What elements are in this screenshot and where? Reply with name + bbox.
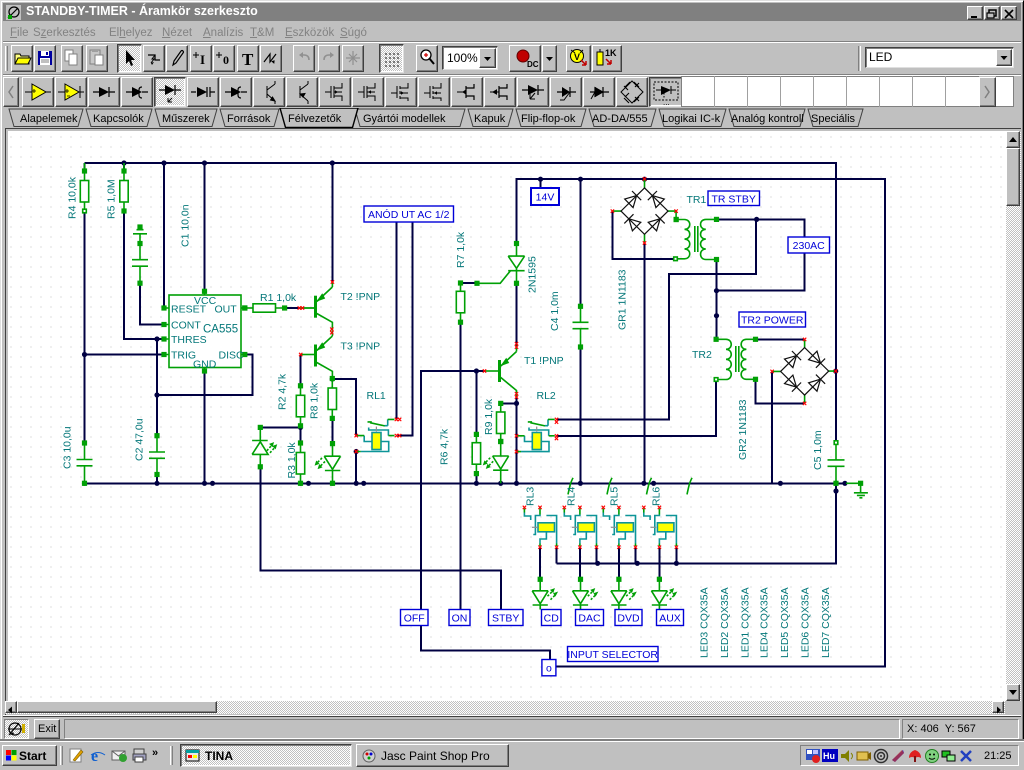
svg-text:Gyártói modellek: Gyártói modellek (363, 113, 446, 125)
wire RL3 coil to bus (556, 548, 558, 563)
resistor R4 (80, 163, 88, 213)
resistor R2 (296, 384, 304, 428)
wire R7 to gate (461, 282, 478, 284)
diode GR1c (629, 219, 641, 231)
svg-text:LED5 CQX35A: LED5 CQX35A (779, 587, 791, 658)
svg-text:0: 0 (223, 53, 229, 67)
svg-text:ANÓD UT AC 1/2: ANÓD UT AC 1/2 (368, 208, 450, 221)
wire TRIG branch (85, 354, 165, 356)
svg-text:DAC: DAC (578, 613, 601, 625)
menu bar (3, 22, 1021, 41)
svg-text:T1 !PNP: T1 !PNP (524, 355, 564, 367)
wire DISC loop (157, 355, 253, 396)
wire D1 to R2/R3 node (260, 426, 300, 428)
wire RL3 coil to LED (539, 548, 541, 579)
wire tool (143, 45, 165, 72)
wire R9 branch (501, 402, 517, 404)
LED LD4 (AUX) (651, 578, 676, 610)
wire T2 emitter riser (331, 163, 333, 282)
node INPUT SELECTOR (567, 647, 658, 662)
wire ground rail (85, 482, 847, 484)
transistor T2 (300, 282, 332, 331)
svg-text:LED7 CQX35A: LED7 CQX35A (820, 587, 832, 658)
node TR STBY (708, 191, 760, 206)
svg-text:...: ... (663, 98, 670, 106)
wire D1 to STBY (260, 467, 501, 610)
pin-connection marks (red x) (298, 177, 838, 549)
svg-text:Műszerek: Műszerek (162, 113, 210, 125)
last (342, 45, 364, 72)
svg-text:STBY: STBY (492, 613, 519, 625)
wire RL6 coil to bus (675, 548, 677, 563)
title bar (3, 3, 1021, 21)
svg-text:Speciális: Speciális (811, 113, 856, 125)
TINA task (active) (180, 744, 352, 767)
node ON (449, 610, 470, 626)
capacitor C4 (573, 305, 589, 349)
tab bar (3, 108, 1021, 130)
diode GR2c (785, 375, 797, 387)
wire R6 to rail (475, 371, 477, 483)
svg-text:Logikai IC-k: Logikai IC-k (662, 113, 721, 125)
relay RL6 (644, 509, 677, 547)
wire RL6 coil to LED (658, 548, 660, 579)
svg-text:R7 1,0k: R7 1,0k (455, 231, 467, 268)
wire C2 column (156, 339, 158, 483)
wire TR1 sec top loop (717, 219, 805, 290)
capacitor C1 (132, 225, 148, 285)
svg-text:TR2 POWER: TR2 POWER (741, 315, 804, 327)
svg-text:230AC: 230AC (793, 240, 826, 252)
SCHEMATIC-PARTS2 (612, 179, 834, 404)
transistor T1 (485, 345, 517, 396)
svg-text:CD: CD (544, 613, 560, 625)
svg-text:Kapcsolók: Kapcsolók (93, 113, 144, 125)
diode GR2a (785, 356, 797, 368)
wire 14V rail stub (540, 179, 542, 188)
svg-text:DC: DC (527, 60, 539, 69)
LED D3 (483, 440, 508, 484)
wire ANOD stub 2 (398, 223, 413, 436)
svg-text:R6 4,7k: R6 4,7k (439, 428, 451, 465)
LED LD2 (DAC) (573, 578, 598, 610)
thyristor 2N1595 (475, 242, 524, 285)
quicklaunch (68, 746, 86, 764)
tray (800, 745, 1019, 766)
zoom combo (442, 46, 498, 70)
wire 14V loop rail (517, 179, 885, 666)
SCHEMATIC-PARTS (77, 163, 868, 498)
diode GR1a (625, 196, 637, 208)
relay contact blade RL5 (647, 478, 652, 495)
wire OFF to T1 base (421, 371, 485, 610)
LED LD3 (DVD) (611, 578, 636, 610)
svg-text:OUT: OUT (215, 304, 238, 316)
open (11, 45, 33, 72)
LED combo (865, 47, 1014, 68)
node 230AC (788, 237, 830, 253)
svg-text:o: o (546, 663, 552, 675)
redo (318, 45, 340, 72)
svg-text:Félvezetők: Félvezetők (288, 113, 342, 125)
svg-text:RL3: RL3 (525, 487, 537, 506)
+I (190, 45, 212, 72)
svg-text:Hu: Hu (823, 751, 835, 761)
voltmeter lamp (566, 45, 591, 72)
resistor R1 (241, 304, 315, 312)
resistor R7 (456, 281, 464, 324)
relay contact blade RL4 (607, 478, 612, 495)
wire R8-D2 link (331, 418, 333, 443)
DC meter (509, 45, 541, 72)
start button (2, 745, 57, 766)
bridge GR1 diodes (621, 188, 668, 234)
toolbar row 1 (3, 41, 1021, 74)
svg-text:R9 1,0k: R9 1,0k (483, 398, 495, 435)
wire C4 riser (580, 179, 582, 306)
resistor R5 (120, 163, 128, 213)
+0 (213, 45, 235, 72)
taskbar (0, 741, 1024, 768)
svg-text:T3 !PNP: T3 !PNP (341, 341, 381, 353)
zoom (416, 45, 438, 72)
waveform (260, 45, 282, 72)
wire C4 to rail (580, 347, 582, 483)
wire VCC top rail (85, 163, 837, 443)
wire RESET riser (163, 163, 165, 308)
wire RL4 coil to bus (596, 548, 598, 563)
svg-text:e: e (91, 748, 98, 764)
svg-text:AD-DA/555: AD-DA/555 (592, 113, 648, 125)
svg-text:R3 1,0k: R3 1,0k (286, 442, 298, 479)
capacitor C3 (77, 441, 93, 485)
svg-text:C3 10,0u: C3 10,0u (62, 426, 74, 469)
svg-text:Start: Start (19, 749, 46, 763)
node DVD (615, 610, 642, 626)
LED LD1 (CD) (532, 578, 557, 610)
node 14V (531, 188, 559, 205)
resistor R3 (296, 441, 304, 485)
svg-text:TR2: TR2 (692, 349, 712, 361)
wire T1 emitter link (516, 243, 518, 245)
LED D1 (252, 426, 277, 469)
svg-text:RL6: RL6 (651, 487, 663, 506)
wire R2 to R3 (300, 426, 302, 443)
wire C1 to CONT (140, 283, 164, 324)
pencil (166, 45, 188, 72)
svg-text:C2 47,0u: C2 47,0u (134, 418, 146, 461)
wire TR2 sec bottom to GR2 bottom (756, 379, 804, 403)
node CD (542, 610, 562, 626)
svg-text:GR1 1N1183: GR1 1N1183 (617, 269, 629, 330)
svg-text:DVD: DVD (617, 613, 640, 625)
svg-text:C1 10,0n: C1 10,0n (180, 204, 192, 247)
wire GR1 bottom to rail (644, 243, 646, 483)
wire VCC pin riser (204, 163, 206, 291)
svg-text:CA555: CA555 (203, 324, 238, 336)
wire RL4 coil to LED (579, 548, 581, 579)
wire T3 base to R2 (300, 355, 302, 386)
ground (846, 482, 868, 498)
svg-text:OFF: OFF (404, 613, 425, 625)
svg-text:LED6 CQX35A: LED6 CQX35A (800, 587, 812, 658)
switch selector o (542, 660, 556, 676)
node TR2 POWER (739, 312, 806, 327)
copy (disabled) (61, 45, 83, 72)
wire RL2 to TR2 primary (557, 380, 717, 436)
svg-text:LED4 CQX35A: LED4 CQX35A (759, 587, 771, 658)
svg-text:RL2: RL2 (537, 390, 556, 402)
wire TR1 sec bottom to TR2 (716, 260, 718, 340)
svg-text:C5 1,0m: C5 1,0m (812, 430, 824, 470)
svg-text:T2 !PNP: T2 !PNP (341, 291, 381, 303)
capacitor C5 (828, 441, 845, 485)
wire GR1 left to TR1 primary (612, 211, 673, 259)
relay contact blade RL6 (687, 478, 692, 495)
svg-text:LED2 CQX35A: LED2 CQX35A (719, 587, 731, 658)
svg-text:14V: 14V (536, 192, 555, 204)
LED D2 (315, 442, 340, 485)
bridge GR1 stubs (612, 179, 676, 243)
node ANOD UT AC 1/2 (364, 206, 454, 222)
node OFF (401, 610, 429, 626)
diode GR2d (809, 379, 821, 391)
transformer TR1 (674, 218, 719, 262)
wire RL5 coil to bus (635, 548, 637, 563)
vertical scrollbar (1006, 131, 1021, 701)
svg-text:ON: ON (452, 613, 468, 625)
svg-text:THRES: THRES (171, 334, 207, 346)
wire thyristor cathode to T1 (516, 283, 518, 345)
status bar (3, 716, 1021, 740)
wire RL2 contact to TR1 loop (557, 219, 756, 419)
resistor R9 (497, 402, 505, 444)
svg-text:DISC: DISC (219, 350, 245, 362)
svg-text:GND: GND (193, 359, 217, 371)
svg-text:R8 1,0k: R8 1,0k (309, 382, 321, 419)
relay RL2 (517, 419, 555, 451)
relay RL1 (356, 419, 394, 451)
wire R1 to T2 base (285, 307, 301, 309)
IC U1 CA555 (162, 290, 246, 373)
relay RL3 (524, 509, 556, 547)
undo (293, 45, 315, 72)
svg-text:INPUT SELECTOR: INPUT SELECTOR (567, 649, 658, 661)
resistor R6 (472, 433, 480, 476)
PSP task (356, 744, 509, 767)
component toolbar row 2 (3, 74, 1021, 108)
svg-text:GR2 1N1183: GR2 1N1183 (737, 399, 749, 460)
diode GR1b (652, 196, 664, 208)
svg-text:CONT: CONT (171, 320, 201, 332)
capacitor C2 (149, 434, 165, 476)
svg-text:AUX: AUX (659, 613, 681, 625)
wire ANOD stub 1 (395, 223, 397, 420)
svg-text:R5 1,0M: R5 1,0M (106, 179, 118, 219)
node AUX (657, 610, 684, 626)
svg-text:2N1595: 2N1595 (527, 256, 539, 293)
svg-text:R2 4,7k: R2 4,7k (277, 373, 289, 410)
bridge GR2 stubs (772, 339, 834, 403)
horizontal scrollbar (5, 701, 1005, 714)
cursor (pressed) (117, 44, 142, 73)
wire relay bus (557, 483, 836, 563)
node STBY (489, 610, 524, 626)
T (237, 45, 259, 72)
relay RL5 (603, 509, 635, 547)
wire RL5 coil to LED (618, 548, 620, 579)
save (34, 45, 56, 72)
wire RL1 to ground rail (355, 452, 357, 484)
canvas (5, 128, 1021, 716)
svg-text:Alapelemek: Alapelemek (20, 113, 78, 125)
svg-text:R4 10,0k: R4 10,0k (67, 176, 79, 219)
component value labels (62, 176, 833, 658)
net label boxes (364, 188, 830, 676)
svg-text:LED3 CQX35A: LED3 CQX35A (699, 587, 711, 658)
bridge GR2 diodes (781, 348, 829, 396)
svg-text:RL1: RL1 (367, 390, 386, 402)
wire GR2 left to rail (771, 373, 773, 484)
resistor R8 (328, 377, 336, 421)
relay contact blade RL3 (568, 478, 573, 495)
svg-text:1K: 1K (605, 48, 617, 58)
diode GR1d (648, 219, 660, 231)
wire GND column (204, 371, 206, 483)
svg-text:I: I (200, 52, 205, 67)
svg-text:RL4: RL4 (566, 487, 578, 506)
svg-text:T: T (242, 50, 254, 69)
wire R4 column (84, 163, 86, 443)
svg-text:Analóg kontroll: Analóg kontroll (731, 113, 804, 125)
transistor T3 (301, 331, 333, 379)
node DAC (576, 610, 604, 626)
svg-text:TR STBY: TR STBY (712, 194, 756, 206)
wire T1 collector node (516, 396, 518, 483)
svg-text:R1 1,0k: R1 1,0k (260, 292, 297, 304)
svg-text:V: V (574, 52, 580, 62)
wire R8 junction to RL1 (332, 379, 356, 436)
svg-text:Kapuk: Kapuk (474, 113, 506, 125)
svg-text:TR1: TR1 (687, 194, 707, 206)
relay RL4 (564, 509, 596, 547)
diode GR2b (809, 351, 821, 363)
IC pin labels (171, 295, 244, 371)
svg-text:LED1 CQX35A: LED1 CQX35A (740, 587, 752, 658)
battery 1K (592, 45, 622, 72)
svg-text:RL5: RL5 (609, 487, 621, 506)
svg-text:Források: Források (227, 113, 271, 125)
paste (disabled) (86, 45, 108, 72)
svg-text:Flip-flop-ok: Flip-flop-ok (521, 113, 576, 125)
grid toggle (379, 44, 404, 73)
wire TR2 sec top to GR2 (756, 338, 804, 340)
wire OFF to selector switch (421, 626, 550, 660)
wire R5 to THRES (124, 163, 164, 339)
wire R7 to ON (460, 322, 462, 609)
svg-text:C4 1,0m: C4 1,0m (549, 291, 561, 331)
transformer TR2 (714, 338, 757, 382)
svg-text:RESET: RESET (171, 304, 207, 316)
